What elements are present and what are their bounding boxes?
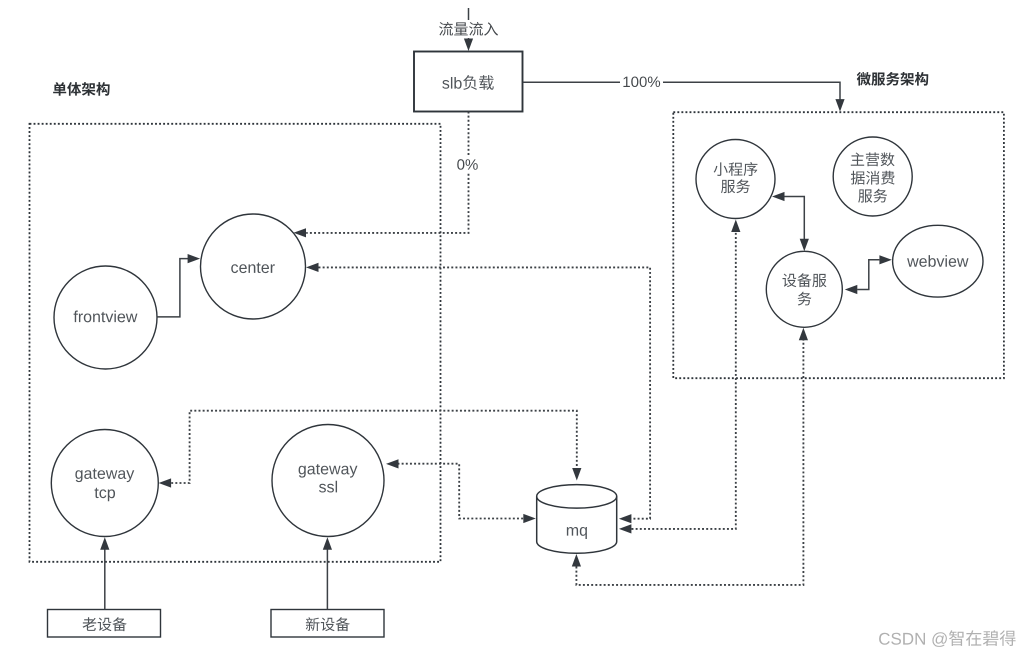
wire gateway ssl to mq (dotted, arrows both ends) bbox=[386, 459, 536, 523]
wire 流量流入 into slb负载 (top inflow arrow) bbox=[436, 8, 501, 51]
node mq (message-queue cylinder) bbox=[537, 485, 617, 554]
dashed region box 单体架构 (monolith) bbox=[30, 124, 441, 562]
node slb负载 (load balancer box) bbox=[414, 52, 523, 112]
wire 老设备 to gateway tcp bbox=[100, 537, 109, 609]
wire 设备服务 to 小程序服务 (solid elbow, arrows both ends) bbox=[772, 192, 809, 251]
wire center to mq (dotted, arrows both ends) bbox=[306, 263, 650, 524]
node gateway tcp (circle) bbox=[51, 430, 158, 537]
title 微服务架构 bbox=[857, 72, 929, 86]
wire frontview to center bbox=[157, 254, 200, 317]
node 设备服务 (circle) bbox=[766, 251, 842, 327]
wire gateway tcp to mq (dotted, arrows both ends) bbox=[159, 411, 582, 488]
wire slb负载 to center (0% dotted route) bbox=[294, 112, 483, 238]
title 单体架构 bbox=[53, 82, 110, 96]
node 主营数据消费服务 (circle) bbox=[833, 137, 912, 216]
node 小程序服务 (circle) bbox=[696, 140, 775, 219]
node gateway ssl (circle) bbox=[272, 425, 384, 537]
node center (circle) bbox=[201, 214, 306, 319]
node frontview (circle) bbox=[54, 266, 157, 369]
wire 新设备 to gateway ssl bbox=[323, 537, 332, 609]
node 新设备 (box) bbox=[271, 610, 384, 638]
watermark CSDN @智在碧得 bbox=[879, 630, 1016, 647]
node webview (ellipse) bbox=[893, 225, 983, 297]
wire 设备服务 to webview (solid elbow, arrows both ends) bbox=[845, 255, 892, 294]
wire mq to 设备服务 (dotted, arrows both ends) bbox=[572, 328, 808, 585]
wire slb负载 to 微服务架构 box (100% route) bbox=[523, 74, 845, 112]
wire mq to 小程序服务 (dotted, arrows both ends) bbox=[619, 220, 741, 534]
node 老设备 (box) bbox=[48, 610, 161, 638]
dashed region box 微服务架构 (microservices) bbox=[673, 112, 1004, 378]
